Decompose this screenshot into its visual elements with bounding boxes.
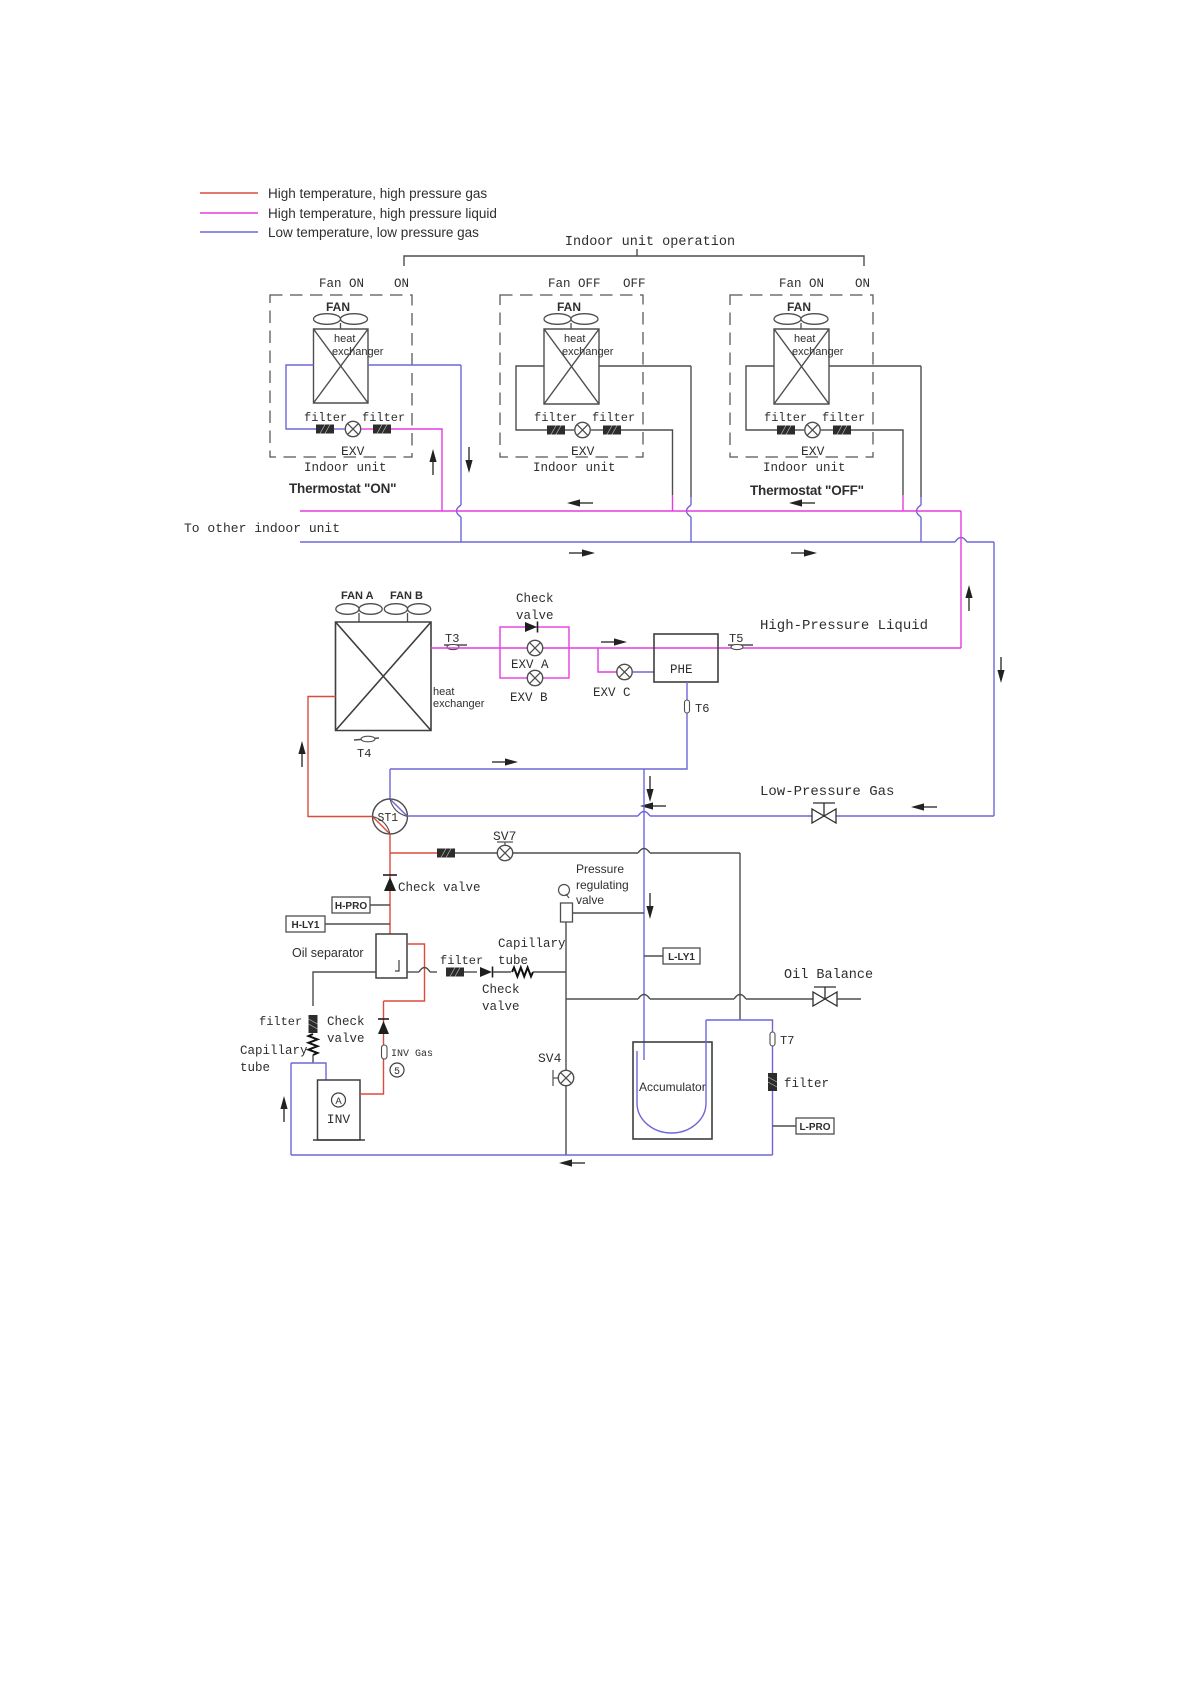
svg-text:Indoor unit: Indoor unit	[533, 461, 616, 475]
svg-text:To other indoor unit: To other indoor unit	[184, 521, 340, 536]
oil filter right	[446, 968, 464, 977]
svg-text:valve: valve	[327, 1032, 365, 1046]
liquid manifold wire	[300, 510, 961, 512]
svg-text:FAN: FAN	[326, 300, 350, 314]
oil separator	[376, 934, 407, 978]
red wire oil separator out	[384, 944, 425, 1001]
svg-text:T7: T7	[780, 1034, 794, 1048]
oil wire capillary to SV4 line	[533, 971, 566, 973]
indoor unit 2 dashed box	[500, 295, 643, 457]
liquid wire box to riser	[569, 647, 961, 649]
wire EXV C to PHE	[633, 671, 654, 673]
circled 5	[390, 1063, 404, 1078]
svg-text:regulating: regulating	[576, 878, 629, 892]
L-PRO wire	[773, 1125, 797, 1127]
EXV A	[527, 640, 542, 655]
svg-text:High-Pressure Liquid: High-Pressure Liquid	[760, 618, 928, 634]
left oil filter	[309, 1015, 318, 1033]
svg-text:exchanger: exchanger	[562, 346, 614, 358]
oil wire separator right	[407, 971, 419, 973]
outdoor heat exchanger	[336, 622, 432, 731]
svg-text:EXV C: EXV C	[593, 686, 631, 700]
PHE gas wire down	[390, 682, 687, 769]
svg-text:SV4: SV4	[538, 1051, 562, 1066]
low pressure gas wire right	[650, 815, 994, 817]
gas downcomer wire right	[993, 542, 995, 816]
svg-text:Oil Balance: Oil Balance	[784, 968, 873, 983]
svg-text:filter: filter	[534, 411, 577, 425]
middle gas down arrow lower	[646, 893, 653, 919]
indoor unit 1 dashed box	[270, 295, 412, 457]
unit1 gas wire right	[368, 364, 461, 366]
svg-text:EXV: EXV	[341, 444, 365, 459]
unit2 gas drop lower	[690, 517, 692, 542]
svg-text:exchanger: exchanger	[792, 346, 844, 358]
oil balance wire end	[837, 998, 861, 1000]
svg-text:Capillary: Capillary	[498, 937, 566, 951]
unit1 gas drop wire	[460, 365, 462, 505]
sensor T7	[770, 1032, 794, 1048]
liquid riser wire right	[960, 511, 962, 648]
unit3 gas drop blue upper	[920, 497, 922, 505]
svg-text:heat: heat	[564, 333, 585, 345]
svg-text:ST1: ST1	[378, 812, 399, 825]
unit3 wire filter to EXV	[795, 429, 804, 431]
unit3 wire EXV to filter	[821, 429, 833, 431]
unit2 flow arrow left	[567, 499, 593, 506]
SV7 filter	[437, 849, 455, 858]
gas flow arrow right	[492, 758, 518, 765]
H-PRO wire	[370, 904, 390, 906]
svg-text:Check valve: Check valve	[398, 881, 481, 895]
unit3 liquid wire to drop	[851, 430, 903, 495]
hot gas bypass vertical wire	[739, 853, 741, 1020]
svg-text:Pressure: Pressure	[576, 862, 624, 876]
SV7 wire to corner	[513, 852, 638, 854]
svg-text:filter: filter	[784, 1077, 829, 1091]
legend red line: high temperature high pressure gas	[200, 192, 258, 194]
service valve low pressure gas	[812, 803, 836, 823]
check valve discharge	[383, 875, 397, 891]
unit2 liquid drop lower	[672, 495, 674, 511]
svg-text:tube: tube	[240, 1061, 270, 1075]
svg-text:Capillary: Capillary	[240, 1044, 308, 1058]
outdoor fan A blades	[336, 604, 382, 622]
L-PRO box	[796, 1118, 834, 1134]
svg-text:Fan ON: Fan ON	[319, 277, 364, 291]
suction bottom arrow	[559, 1159, 585, 1166]
unit3 gas drop wire	[920, 366, 922, 497]
unit1 liquid wire to drop	[391, 429, 442, 511]
svg-text:valve: valve	[516, 609, 554, 623]
sensor T5	[728, 632, 753, 650]
legend magenta line	[200, 212, 258, 214]
check valve symbol in box	[525, 622, 538, 633]
L-LY1 box	[663, 948, 700, 964]
unit1 down arrow	[465, 447, 472, 473]
svg-text:Indoor unit operation: Indoor unit operation	[565, 235, 735, 250]
unit2 gas wire left stub	[516, 366, 547, 430]
svg-text:High temperature, high pressur: High temperature, high pressure gas	[268, 186, 487, 201]
pressure regulating valve symbol	[559, 885, 573, 923]
svg-text:Check: Check	[516, 592, 554, 606]
svg-text:heat: heat	[794, 333, 815, 345]
accumulator box	[633, 1042, 712, 1139]
bracket line	[404, 256, 864, 266]
svg-text:Check: Check	[482, 983, 520, 997]
low pressure gas jump	[638, 812, 650, 817]
unit3 gas wire right	[829, 365, 921, 367]
suction wire to INV	[291, 1063, 326, 1080]
svg-text:FAN: FAN	[557, 300, 581, 314]
H-LY1 wire	[325, 923, 390, 925]
unit3 EXV	[805, 422, 820, 437]
unit1 up arrow	[429, 449, 436, 475]
red riser up arrow	[298, 741, 305, 767]
oil balance jump 1	[638, 995, 650, 1000]
svg-text:heat: heat	[334, 333, 355, 345]
oil wire jump over red	[419, 968, 430, 973]
L-LY1 wire	[644, 955, 663, 957]
unit1 fan blades	[314, 314, 368, 329]
middle gas vertical wire	[643, 769, 645, 1060]
unit3 liquid drop lower	[902, 495, 904, 511]
gas downcomer down arrow	[997, 657, 1004, 683]
svg-text:heat: heat	[433, 686, 454, 698]
left oil wire to suction	[312, 1055, 314, 1063]
svg-text:Fan OFF: Fan OFF	[548, 277, 601, 291]
svg-text:Indoor unit: Indoor unit	[304, 461, 387, 475]
EXV C branch wire	[598, 648, 617, 672]
svg-text:EXV B: EXV B	[510, 691, 548, 705]
svg-text:EXV: EXV	[801, 444, 825, 459]
SV4 column wire	[565, 922, 567, 1155]
unit2 fan blades	[544, 314, 598, 329]
gas manifold wire left part	[300, 541, 955, 543]
outdoor fan B blades	[384, 604, 430, 622]
svg-text:High temperature, high pressur: High temperature, high pressure liquid	[268, 206, 497, 221]
red wire ST1 to oil separator	[389, 834, 391, 934]
svg-text:Thermostat "OFF": Thermostat "OFF"	[750, 483, 864, 498]
oil balance wire to valve	[746, 998, 813, 1000]
compressor INV box	[313, 1080, 365, 1140]
svg-text:filter: filter	[592, 411, 635, 425]
middle gas down arrow upper	[646, 776, 653, 802]
PHE box	[654, 634, 718, 682]
SV7 red wire	[390, 852, 437, 854]
unit2 liquid wire to drop	[621, 430, 673, 495]
svg-text:INV: INV	[327, 1112, 351, 1127]
unit3 heat exchanger	[774, 329, 829, 404]
svg-text:Low-Pressure Gas: Low-Pressure Gas	[760, 784, 894, 800]
unit1 gas wire left stub	[286, 365, 317, 429]
unit2 heat exchanger	[544, 329, 599, 404]
PRV wire to gas line	[573, 912, 645, 914]
svg-text:ON: ON	[855, 277, 870, 291]
oil balance jump 2	[734, 995, 746, 1000]
svg-text:FAN A: FAN A	[341, 590, 374, 602]
unit1 gas drop jump	[457, 505, 462, 517]
svg-text:PHE: PHE	[670, 663, 693, 677]
gas wire ST1 stub	[389, 769, 391, 799]
sensor INV Gas	[382, 1045, 434, 1060]
oil wire to filter	[430, 971, 437, 973]
svg-text:valve: valve	[576, 893, 604, 907]
solenoid valve SV7	[497, 842, 513, 861]
unit1 wire EXV to filter	[362, 428, 374, 430]
svg-text:Low temperature, low pressure: Low temperature, low pressure gas	[268, 225, 479, 240]
unit3 gas drop jump	[917, 505, 922, 517]
low pressure gas wire	[408, 815, 639, 817]
oil balance wire mid	[650, 998, 734, 1000]
liquid wire through box	[500, 647, 569, 649]
oil wire filter to check	[464, 971, 477, 973]
sensor T3	[444, 632, 467, 650]
suction riser wire	[290, 1063, 292, 1155]
unit1 EXV	[345, 421, 360, 436]
left oil return wire	[313, 972, 376, 1006]
svg-text:T4: T4	[357, 747, 371, 761]
sensor T6	[685, 700, 710, 716]
unit2 gas drop blue upper	[690, 497, 692, 505]
unit1 gas drop wire lower	[460, 517, 462, 542]
unit3 flow arrow right	[791, 549, 817, 556]
svg-text:FAN B: FAN B	[390, 590, 423, 602]
svg-text:filter: filter	[304, 411, 347, 425]
SV7 wire right part	[650, 852, 740, 854]
svg-text:5: 5	[394, 1067, 400, 1078]
svg-text:L-LY1: L-LY1	[668, 952, 695, 963]
SV7 wire jump	[638, 849, 650, 854]
svg-text:filter: filter	[764, 411, 807, 425]
liquid riser up arrow	[965, 585, 972, 611]
oil capillary tube coil	[512, 968, 533, 977]
H-PRO box	[332, 897, 370, 913]
svg-text:Thermostat "ON": Thermostat "ON"	[289, 481, 396, 496]
unit3 fan blades	[774, 314, 828, 329]
svg-text:EXV: EXV	[571, 444, 595, 459]
unit3 right filter	[833, 426, 851, 435]
unit3 gas wire left stub	[746, 366, 777, 430]
svg-text:H-LY1: H-LY1	[292, 920, 320, 931]
svg-text:INV Gas: INV Gas	[391, 1049, 433, 1060]
unit1 heat exchanger	[314, 329, 369, 403]
unit2 EXV	[575, 422, 590, 437]
gas manifold wire right part	[967, 541, 994, 543]
suction bottom wire	[291, 1154, 773, 1156]
svg-text:Oil separator: Oil separator	[292, 946, 364, 960]
unit3 left filter	[777, 426, 795, 435]
oil balance wire left	[566, 998, 638, 1000]
unit3 gas drop lower	[920, 517, 922, 542]
unit2 right filter	[603, 426, 621, 435]
suction filter	[768, 1073, 777, 1091]
svg-text:filter: filter	[259, 1015, 302, 1029]
H-LY1 box	[286, 916, 325, 932]
svg-text:Check: Check	[327, 1015, 365, 1029]
unit2 gas wire right	[599, 365, 691, 367]
svg-text:valve: valve	[482, 1000, 520, 1014]
sensor T4	[354, 736, 379, 761]
accumulator U tube	[637, 1020, 706, 1133]
unit2 flow arrow right	[569, 549, 595, 556]
accumulator outlet wire	[706, 1020, 773, 1155]
unit2 left filter	[547, 426, 565, 435]
unit1 right filter	[373, 425, 391, 434]
svg-text:ON: ON	[394, 277, 409, 291]
check valve box	[500, 627, 569, 678]
oil check valve	[480, 967, 493, 978]
svg-text:A: A	[335, 1096, 342, 1107]
liquid wire HX to check valve box	[431, 647, 500, 649]
unit2 gas drop jump	[687, 505, 692, 517]
oil wire check to capillary	[493, 971, 511, 973]
indoor unit 3 dashed box	[730, 295, 873, 457]
gas manifold jump	[955, 538, 967, 543]
unit2 gas drop wire	[690, 366, 692, 497]
4-way valve ST1	[373, 799, 408, 834]
svg-text:EXV A: EXV A	[511, 658, 549, 672]
unit3 flow arrow left	[789, 499, 815, 506]
EXV B	[527, 670, 542, 685]
gas flow arrow left right	[911, 803, 937, 810]
svg-text:filter: filter	[362, 411, 405, 425]
oil balance valve	[813, 987, 837, 1006]
bracket stub	[636, 249, 638, 256]
svg-text:Fan ON: Fan ON	[779, 277, 824, 291]
svg-text:L-PRO: L-PRO	[799, 1122, 830, 1133]
unit2 wire EXV to filter	[591, 429, 603, 431]
svg-text:T6: T6	[695, 702, 709, 716]
legend blue line	[200, 231, 258, 233]
svg-text:filter: filter	[440, 954, 483, 968]
svg-text:filter: filter	[822, 411, 865, 425]
unit1 left filter	[316, 425, 334, 434]
svg-text:FAN: FAN	[787, 300, 811, 314]
svg-text:Accumulator: Accumulator	[639, 1080, 706, 1094]
unit2 wire filter to EXV	[565, 429, 574, 431]
svg-text:tube: tube	[498, 954, 528, 968]
solenoid valve SV4	[553, 1070, 574, 1086]
unit1 wire filter to EXV	[334, 428, 345, 430]
suction up arrow	[280, 1096, 287, 1122]
liquid flow arrow	[601, 638, 627, 645]
svg-text:exchanger: exchanger	[433, 698, 485, 710]
red discharge wire	[360, 1001, 384, 1094]
SV7 wire filter to valve	[455, 852, 497, 854]
svg-text:exchanger: exchanger	[332, 346, 384, 358]
svg-text:OFF: OFF	[623, 277, 646, 291]
svg-text:H-PRO: H-PRO	[335, 901, 367, 912]
gas flow arrow left mid	[640, 802, 666, 809]
compressor motor circle A	[332, 1093, 346, 1107]
discharge check valve	[378, 1019, 389, 1034]
left capillary coil	[309, 1034, 318, 1055]
red wire HX to ST1	[308, 697, 373, 817]
svg-text:Indoor unit: Indoor unit	[763, 461, 846, 475]
EXV C	[617, 664, 632, 679]
